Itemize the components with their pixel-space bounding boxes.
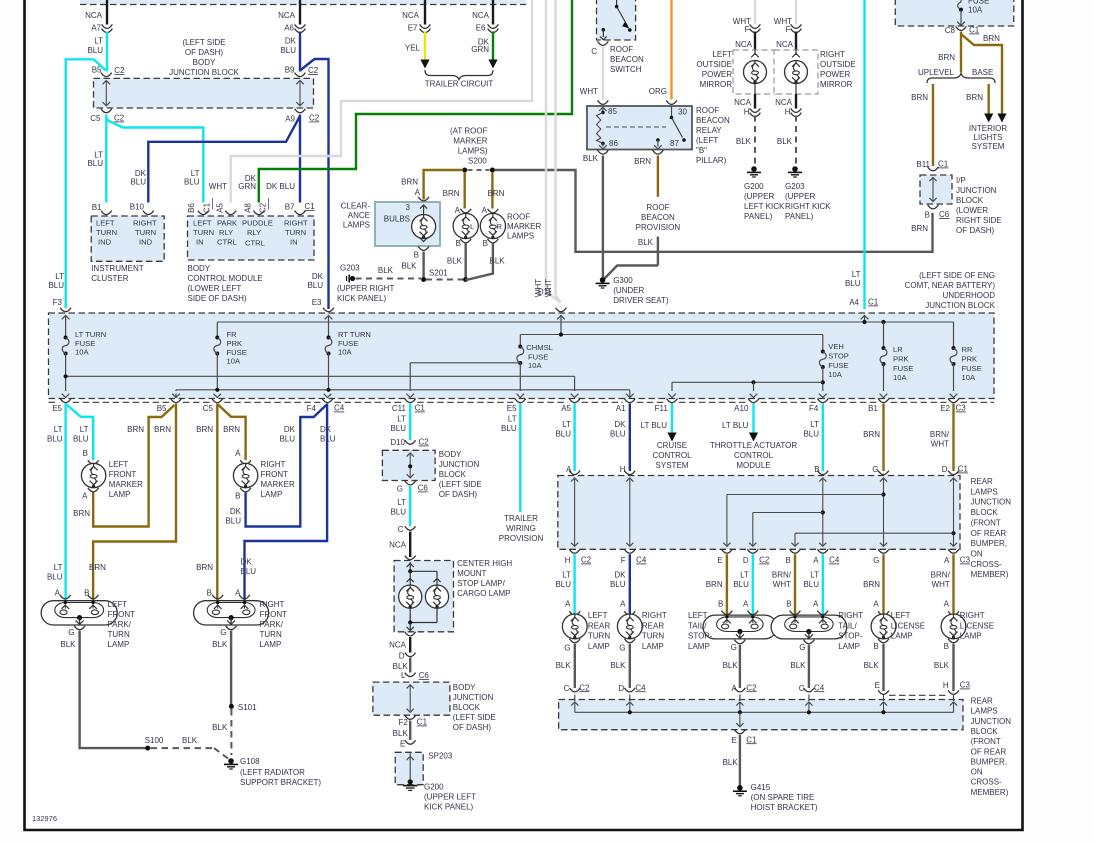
svg-text:INSTRUMENT: INSTRUMENT: [91, 264, 144, 273]
entry stubs lower rear JB: [574, 695, 576, 702]
svg-text:CTRL: CTRL: [245, 239, 265, 248]
link B to D exit: [753, 512, 823, 514]
wire LT BLU C5 branch to BCM B6: [106, 118, 203, 203]
svg-text:CARGO LAMP: CARGO LAMP: [457, 589, 510, 598]
svg-text:MEMBER): MEMBER): [971, 570, 1009, 579]
svg-text:(LOWER LEFT: (LOWER LEFT: [188, 284, 242, 293]
svg-text:DRIVER SEAT): DRIVER SEAT): [613, 296, 669, 305]
svg-text:BLU: BLU: [803, 430, 819, 439]
svg-text:BRN: BRN: [706, 580, 723, 589]
svg-text:ORG: ORG: [649, 87, 667, 96]
wire BLK roof marker L to splice: [465, 244, 467, 278]
svg-text:RLY: RLY: [219, 228, 233, 237]
svg-text:STOP-: STOP-: [688, 632, 713, 641]
connector B1: [101, 211, 112, 215]
svg-text:PROVISION: PROVISION: [499, 534, 544, 543]
svg-text:BUMPER,: BUMPER,: [971, 757, 1007, 766]
svg-text:H: H: [943, 681, 949, 690]
svg-text:PUDDLE: PUDDLE: [242, 219, 273, 228]
left rear turn lamp: [569, 611, 580, 615]
svg-text:LEFT: LEFT: [588, 611, 608, 620]
svg-text:C4: C4: [635, 683, 646, 692]
svg-text:B5: B5: [157, 404, 167, 413]
svg-text:TRAILER CIRCUIT: TRAILER CIRCUIT: [425, 80, 494, 89]
svg-text:ROOF: ROOF: [646, 203, 669, 212]
splice block SP203: [395, 752, 423, 784]
svg-text:L: L: [401, 671, 406, 680]
svg-text:BLK: BLK: [934, 661, 950, 670]
svg-text:LAMP: LAMP: [260, 640, 282, 649]
svg-text:C1: C1: [415, 404, 426, 413]
svg-text:B: B: [83, 449, 88, 458]
svg-text:NCA: NCA: [776, 40, 794, 49]
svg-text:SWITCH: SWITCH: [610, 65, 642, 74]
svg-text:REAR: REAR: [971, 477, 993, 486]
svg-text:GRN: GRN: [471, 45, 489, 54]
svg-text:A: A: [55, 589, 61, 598]
svg-text:JUNCTION BLOCK: JUNCTION BLOCK: [169, 68, 239, 77]
ground G108: [228, 758, 234, 764]
svg-text:WHT: WHT: [932, 580, 950, 589]
svg-text:C1: C1: [746, 735, 757, 744]
svg-text:CTRL: CTRL: [217, 238, 237, 247]
svg-text:FRONT: FRONT: [261, 470, 289, 479]
svg-text:BRN: BRN: [196, 563, 213, 572]
svg-text:BUMPER,: BUMPER,: [971, 539, 1007, 548]
svg-text:F4: F4: [307, 404, 317, 413]
wire NCA right mirror: [795, 32, 797, 51]
wire WHT pair to fuse block D11: [546, 0, 561, 303]
right front park/turn lamp: [212, 595, 223, 599]
svg-text:BLOCK: BLOCK: [453, 703, 481, 712]
svg-text:SYSTEM: SYSTEM: [972, 142, 1005, 151]
svg-text:BRN: BRN: [983, 34, 1000, 43]
svg-text:LT: LT: [562, 571, 571, 580]
svg-text:RT TURN: RT TURN: [338, 330, 371, 339]
svg-text:BLOCK: BLOCK: [971, 727, 999, 736]
wire DK BLU branch B9 to fuse block E3: [300, 59, 329, 309]
svg-text:LT TURN: LT TURN: [75, 330, 106, 339]
svg-text:DK: DK: [614, 420, 626, 429]
svg-text:LEFT: LEFT: [688, 611, 708, 620]
connector B10: [143, 211, 154, 215]
svg-text:E3: E3: [312, 298, 322, 307]
svg-text:B10: B10: [130, 203, 145, 212]
svg-text:B: B: [718, 600, 723, 609]
svg-text:85: 85: [608, 107, 617, 116]
svg-text:STOP: STOP: [828, 352, 849, 361]
wire DK GRN BCM A8 provision: [259, 0, 572, 203]
svg-text:(AT ROOF: (AT ROOF: [450, 127, 488, 136]
svg-text:STOP-: STOP-: [838, 632, 863, 641]
roof beacon switch box: [597, 0, 636, 40]
svg-text:10A: 10A: [227, 357, 241, 366]
wire NCA to E7: [424, 0, 426, 25]
wire BLK left rear turn G to C: [574, 644, 576, 688]
svg-text:BLK: BLK: [212, 640, 228, 649]
svg-text:LEFT: LEFT: [891, 611, 911, 620]
svg-text:S201: S201: [429, 269, 448, 278]
columns inside upper rear JB: [574, 479, 576, 547]
svg-text:TRAILER: TRAILER: [504, 514, 538, 523]
svg-text:S101: S101: [238, 703, 257, 712]
svg-text:30: 30: [678, 108, 687, 117]
svg-text:A: A: [565, 600, 571, 609]
svg-text:CONTROL: CONTROL: [652, 451, 692, 460]
svg-text:BLU: BLU: [501, 424, 517, 433]
connector relay 86 out: [598, 150, 609, 154]
svg-text:BRN/: BRN/: [930, 430, 950, 439]
svg-text:OF REAR: OF REAR: [971, 529, 1007, 538]
exit E2 C3: [950, 394, 958, 398]
wire BRN S200 to roof marker R: [491, 172, 493, 209]
svg-text:WHT: WHT: [931, 440, 949, 449]
svg-text:C1: C1: [938, 160, 949, 169]
connector A8 C2: [253, 211, 264, 215]
svg-text:A: A: [813, 556, 819, 565]
svg-text:LAMPS): LAMPS): [458, 147, 488, 156]
svg-text:DK: DK: [312, 272, 324, 281]
svg-text:BLK: BLK: [447, 257, 463, 266]
svg-text:H: H: [565, 556, 571, 565]
svg-text:MARKER: MARKER: [261, 480, 295, 489]
svg-text:JUNCTION BLOCK: JUNCTION BLOCK: [925, 301, 995, 310]
svg-text:F: F: [745, 25, 750, 34]
svg-text:LAMPS: LAMPS: [343, 221, 370, 230]
bus inside lower rear JB: [575, 711, 954, 713]
svg-text:CLUSTER: CLUSTER: [91, 274, 129, 283]
svg-text:C4: C4: [334, 404, 345, 413]
svg-text:BLK: BLK: [864, 661, 880, 670]
connector E SP203: [405, 740, 416, 744]
svg-text:A: A: [813, 600, 819, 609]
svg-text:FR: FR: [227, 330, 238, 339]
wire WHT right mirror feed: [795, 0, 797, 25]
svg-text:A: A: [415, 188, 421, 197]
svg-text:A: A: [944, 556, 950, 565]
svg-text:H: H: [785, 108, 791, 117]
arrow interior lights right: [997, 114, 1006, 123]
left mirror bulb: [754, 50, 756, 55]
svg-text:A5: A5: [216, 203, 225, 213]
svg-text:BULBS: BULBS: [384, 215, 410, 224]
wire BLK right tail G to C: [808, 645, 810, 688]
bus line L5 y=389.8: [176, 389, 630, 391]
svg-text:A8: A8: [244, 203, 253, 213]
svg-text:FUSE: FUSE: [828, 361, 848, 370]
svg-text:BLK: BLK: [610, 661, 626, 670]
svg-text:10A: 10A: [338, 348, 352, 357]
svg-text:NCA: NCA: [775, 98, 793, 107]
splice S200: [462, 168, 467, 173]
wire NCA to A7: [106, 0, 108, 25]
svg-text:FUSE: FUSE: [962, 364, 982, 373]
svg-text:G203: G203: [785, 182, 805, 191]
ground G200 bottom: [403, 785, 417, 787]
svg-text:C1: C1: [868, 298, 879, 307]
svg-text:BRN: BRN: [89, 563, 106, 572]
instrument cluster box: [91, 216, 164, 261]
svg-text:A4: A4: [849, 298, 859, 307]
svg-text:LT: LT: [54, 563, 63, 572]
svg-text:IND: IND: [98, 238, 112, 247]
svg-text:JUNCTION: JUNCTION: [453, 693, 494, 702]
svg-text:C2: C2: [308, 66, 319, 75]
svg-text:BLK: BLK: [393, 662, 409, 671]
svg-text:87: 87: [670, 139, 679, 148]
svg-text:OF REAR: OF REAR: [971, 747, 1007, 756]
svg-text:CONTROL: CONTROL: [734, 451, 774, 460]
connector relay 30: [666, 100, 677, 104]
svg-text:TURN: TURN: [642, 632, 664, 641]
svg-text:ROOF: ROOF: [507, 213, 530, 222]
connector bracket C3 between E and H: [889, 694, 948, 696]
svg-text:LAMPS: LAMPS: [507, 232, 534, 241]
connector G C6: [405, 481, 416, 485]
svg-text:TURN: TURN: [193, 228, 214, 237]
connector F2 C1: [405, 715, 416, 719]
wire BLK left license B to E: [882, 644, 884, 691]
svg-text:(FRONT: (FRONT: [971, 737, 1001, 746]
connector E rear lower: [878, 690, 889, 694]
svg-text:A6: A6: [284, 24, 294, 33]
connector roof marker R B: [488, 239, 499, 243]
svg-text:CROSS-: CROSS-: [971, 778, 1002, 787]
svg-text:LAMPS: LAMPS: [971, 707, 998, 716]
svg-text:86: 86: [609, 139, 618, 148]
svg-text:MEMBER): MEMBER): [971, 788, 1009, 797]
left tail/stop lamp: [722, 611, 733, 615]
svg-text:C2: C2: [419, 438, 430, 447]
svg-text:TURN: TURN: [96, 228, 117, 237]
rear lamps junction block lower box: [559, 700, 963, 730]
ground G415: [737, 785, 743, 791]
wire BRN base branch: [988, 84, 990, 114]
svg-text:IN: IN: [290, 238, 298, 247]
I/P fuse block top right: [895, 0, 1014, 26]
svg-text:F: F: [786, 25, 791, 34]
svg-text:C6: C6: [419, 671, 430, 680]
svg-text:B: B: [873, 642, 878, 651]
svg-text:B: B: [414, 251, 419, 260]
exit E5 left: [62, 394, 70, 398]
left outside power mirror box: [733, 50, 777, 94]
svg-text:B: B: [944, 642, 949, 651]
svg-text:S200: S200: [468, 156, 487, 165]
svg-text:D: D: [618, 684, 624, 693]
svg-text:BLU: BLU: [241, 567, 257, 576]
svg-text:C5: C5: [90, 114, 101, 123]
svg-text:A: A: [455, 206, 461, 215]
svg-text:BRN: BRN: [911, 93, 928, 102]
wire LT BLU branch to fuse block F3: [66, 59, 94, 308]
svg-text:OF DASH): OF DASH): [439, 490, 478, 499]
svg-text:E5: E5: [52, 404, 62, 413]
wire BLK right park/turn G to S101: [230, 631, 232, 707]
svg-text:CHMSL: CHMSL: [526, 343, 553, 352]
svg-text:G108: G108: [240, 757, 260, 766]
svg-text:LAMPS: LAMPS: [971, 487, 998, 496]
entry F3: [60, 308, 71, 312]
svg-text:BLU: BLU: [803, 580, 819, 589]
svg-text:BLK: BLK: [212, 723, 228, 732]
svg-text:C: C: [591, 47, 597, 56]
brace trailer circuit: [425, 70, 493, 80]
svg-text:(LEFT RADIATOR: (LEFT RADIATOR: [240, 768, 305, 777]
svg-text:BRN: BRN: [401, 178, 418, 187]
svg-text:C: C: [398, 525, 404, 534]
svg-text:RIGHT: RIGHT: [838, 611, 863, 620]
svg-text:A: A: [731, 684, 737, 693]
svg-text:ROOF: ROOF: [610, 45, 633, 54]
underhood junction block box: [49, 313, 995, 399]
svg-text:LICENSE: LICENSE: [960, 621, 994, 630]
svg-text:A: A: [235, 449, 241, 458]
svg-text:BEACON: BEACON: [696, 116, 730, 125]
svg-text:C11: C11: [392, 404, 407, 413]
svg-text:BLU: BLU: [87, 159, 103, 168]
link G to E exit: [727, 494, 884, 496]
svg-text:BLU: BLU: [610, 580, 626, 589]
svg-text:BLOCK: BLOCK: [956, 196, 984, 205]
svg-text:C2: C2: [579, 683, 590, 692]
exit F4 left: [324, 394, 332, 398]
svg-text:D: D: [942, 465, 948, 474]
wire BRN C8 down: [960, 32, 962, 73]
svg-text:GRN: GRN: [238, 182, 256, 191]
chmsl lamp internals: [405, 556, 416, 560]
svg-text:WHT: WHT: [209, 182, 227, 191]
svg-text:NCA: NCA: [389, 541, 407, 550]
wire BRN left front marker A to B5: [93, 405, 174, 527]
svg-text:CONTROL MODULE: CONTROL MODULE: [188, 274, 263, 283]
entry arcs upper rear JB: [569, 471, 580, 475]
exit B1: [880, 394, 888, 398]
bus line L1 y=322: [217, 321, 953, 323]
roof marker lamp R: [488, 209, 499, 213]
svg-text:LT: LT: [55, 272, 64, 281]
svg-text:BLU: BLU: [279, 435, 295, 444]
svg-text:SUPPORT BRACKET): SUPPORT BRACKET): [240, 778, 321, 787]
svg-text:(UPPER LEFT: (UPPER LEFT: [424, 793, 476, 802]
svg-text:LT: LT: [740, 571, 749, 580]
left front park/turn lamp: [60, 595, 71, 599]
wire DK BLU A6 to B9: [299, 32, 301, 72]
svg-text:F: F: [621, 556, 626, 565]
wire WHT switch C to relay 85: [602, 47, 604, 100]
stop lamp feed line y=382.3: [672, 381, 823, 383]
svg-text:BLU: BLU: [390, 424, 406, 433]
connector B9 C2: [295, 73, 306, 77]
svg-text:LT: LT: [810, 420, 819, 429]
svg-text:L: L: [470, 222, 474, 231]
svg-text:LAMP: LAMP: [891, 632, 913, 641]
svg-text:SIDE OF DASH): SIDE OF DASH): [188, 294, 247, 303]
wire BRN/WHT B to right tail lamp B: [794, 554, 796, 616]
svg-text:IN: IN: [196, 238, 204, 247]
svg-text:JUNCTION: JUNCTION: [971, 498, 1012, 507]
svg-text:BLK: BLK: [723, 661, 739, 670]
svg-text:SYSTEM: SYSTEM: [656, 461, 689, 470]
svg-text:BLU: BLU: [130, 178, 146, 187]
connector D C4 rear: [624, 688, 635, 692]
exit A5: [574, 376, 576, 391]
exit C5: [214, 394, 222, 398]
svg-text:BRN: BRN: [443, 189, 460, 198]
wire BRN/WHT E2 to rear junction D: [952, 404, 954, 472]
wire LT BLU H to left rear turn lamp A: [573, 554, 575, 614]
right tail/stop lamp: [790, 611, 801, 615]
svg-text:BLK: BLK: [638, 238, 654, 247]
svg-text:FUSE: FUSE: [893, 364, 913, 373]
svg-text:DK: DK: [320, 425, 332, 434]
link D to B exit: [795, 532, 954, 534]
svg-text:BRN/: BRN/: [772, 571, 792, 580]
wire LT BLU F4 to rear junction B: [822, 404, 824, 472]
entry E3 / fuse RT TURN 10A: [323, 308, 334, 312]
wire LT BLU E5 to left front park/turn lamp A: [64, 404, 66, 603]
svg-text:NCA: NCA: [278, 11, 296, 20]
svg-text:LAMP: LAMP: [108, 640, 130, 649]
fuse LR PRK 10A: [881, 320, 885, 324]
exit F4 right: [819, 394, 827, 398]
svg-text:OUTSIDE: OUTSIDE: [696, 60, 732, 69]
svg-text:LAMP: LAMP: [688, 642, 710, 651]
svg-text:(LOWER: (LOWER: [956, 206, 988, 215]
entry D11: [556, 308, 567, 312]
wire DK GRN E6 to trailer circuit: [492, 32, 494, 61]
svg-text:A10: A10: [734, 404, 749, 413]
wire NCA to A6: [299, 0, 301, 25]
svg-text:TURN: TURN: [135, 228, 156, 237]
svg-text:PARK/: PARK/: [108, 620, 132, 629]
svg-text:BLU: BLU: [73, 435, 89, 444]
svg-text:A7: A7: [91, 24, 101, 33]
svg-text:BRN: BRN: [488, 189, 505, 198]
roof beacon relay box: [587, 106, 692, 150]
svg-text:C2: C2: [746, 683, 757, 692]
svg-text:LT: LT: [80, 425, 89, 434]
connector A6: [295, 24, 306, 28]
svg-text:BRN: BRN: [966, 93, 983, 102]
connector A7: [102, 24, 113, 28]
svg-text:C5: C5: [203, 404, 214, 413]
svg-text:C4: C4: [829, 556, 840, 565]
svg-text:MARKER: MARKER: [109, 480, 143, 489]
svg-text:OF DASH): OF DASH): [453, 723, 492, 732]
svg-text:NCA: NCA: [472, 11, 490, 20]
svg-text:B: B: [483, 239, 488, 248]
svg-text:3: 3: [406, 203, 411, 212]
wire WHT left mirror feed: [754, 0, 756, 25]
right rear turn lamp: [624, 611, 635, 615]
connector C8 C1: [956, 26, 967, 30]
svg-text:(UPPER: (UPPER: [744, 192, 774, 201]
connector E7: [420, 24, 431, 28]
splice S101: [229, 704, 234, 709]
svg-text:C3: C3: [960, 556, 971, 565]
fuse LT TURN 10A: [65, 330, 67, 338]
wire DK BLU F to right rear turn lamp A: [629, 554, 631, 614]
wire BLK G300 leg: [603, 266, 658, 280]
svg-text:TURN: TURN: [260, 630, 282, 639]
wire DK BLU A9 to BCM B7: [299, 115, 301, 203]
svg-text:A: A: [620, 600, 626, 609]
svg-text:RR: RR: [962, 345, 973, 354]
svg-text:FRONT: FRONT: [108, 610, 136, 619]
svg-text:BLK: BLK: [556, 661, 572, 670]
wire BLK relay 86 to G300: [602, 156, 604, 280]
